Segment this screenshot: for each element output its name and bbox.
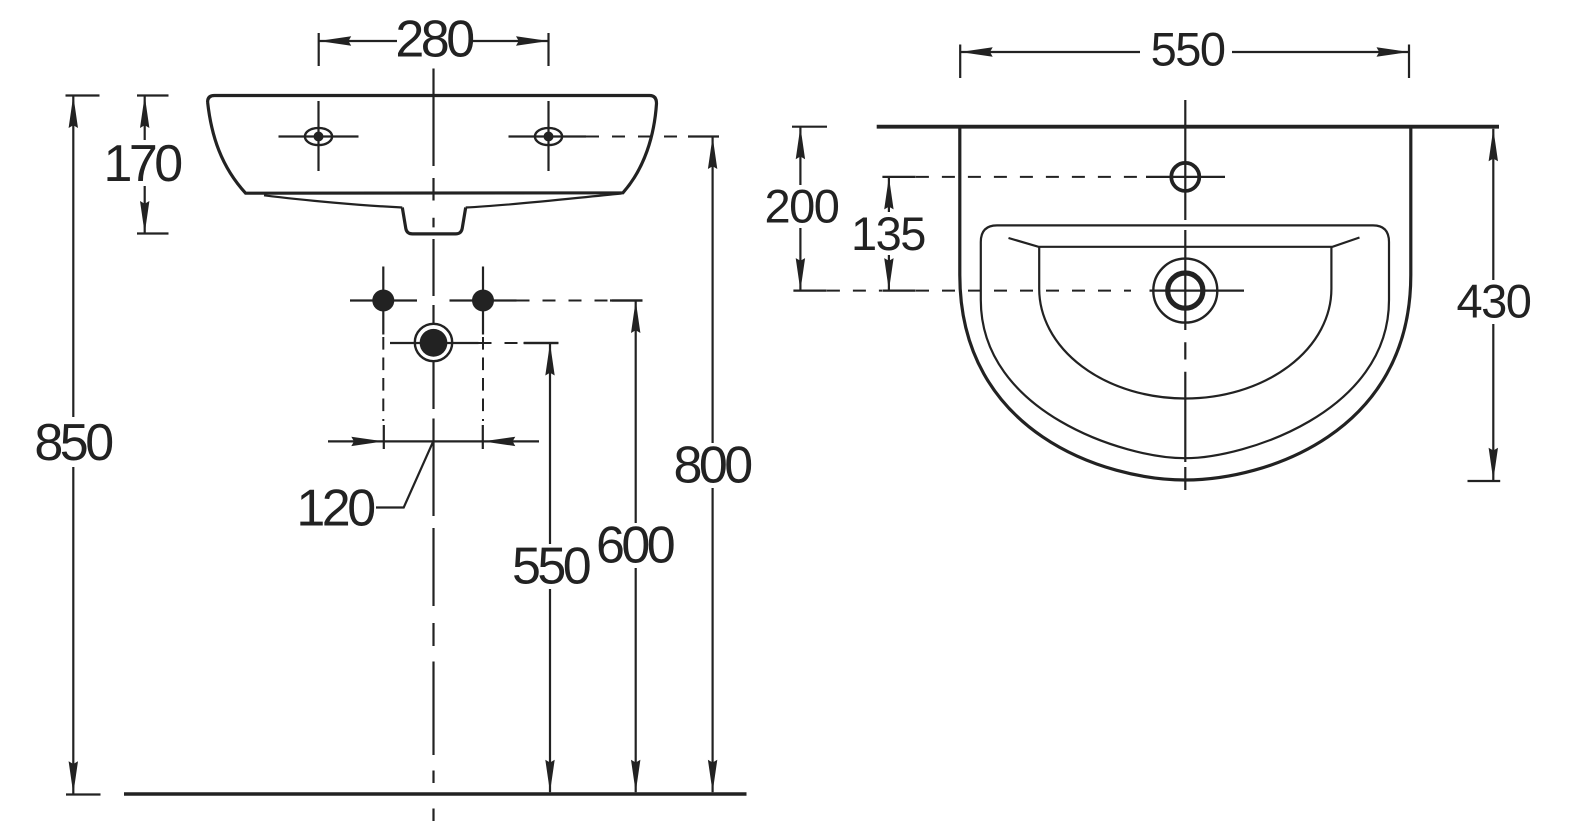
dimension 800 <box>673 137 751 793</box>
dimension 200 <box>765 127 839 291</box>
front view: basin underside line <box>264 194 622 208</box>
top view: inner bowl arc <box>1039 247 1331 399</box>
front view: left mounting hole <box>279 101 359 171</box>
front view: basin outline <box>208 96 657 194</box>
svg-text:800: 800 <box>673 437 751 495</box>
front view: right mounting hole <box>509 101 587 171</box>
dimension 430 <box>1457 129 1531 481</box>
svg-text:430: 430 <box>1457 275 1531 328</box>
dimension 170 <box>103 96 181 234</box>
svg-text:135: 135 <box>851 207 925 260</box>
dimension 550 (top view width) <box>960 23 1409 79</box>
svg-text:280: 280 <box>395 11 473 69</box>
svg-text:200: 200 <box>765 180 839 233</box>
top view: basin rim <box>981 225 1389 458</box>
dimension 135 <box>851 177 925 291</box>
front view: right fixing hole dot <box>450 267 517 335</box>
floor line <box>124 792 747 796</box>
front view: drain hole <box>390 324 479 361</box>
svg-text:600: 600 <box>596 517 674 575</box>
svg-text:550: 550 <box>1151 23 1225 76</box>
top view: back ledge line <box>1009 238 1360 247</box>
dimension 850 <box>34 96 112 795</box>
top view: wall line <box>877 125 1499 129</box>
top view: basin outer outline <box>960 128 1411 480</box>
dimension 600 <box>596 301 674 793</box>
dimension 120 <box>296 437 539 538</box>
svg-text:850: 850 <box>34 414 112 472</box>
dashed reference line from right mounting hole to 800 dimension <box>586 136 688 138</box>
dashed reference from fixing dots to 600 dimension <box>517 300 613 302</box>
dashed reference line at drain level <box>827 290 1131 292</box>
svg-text:550: 550 <box>512 538 590 596</box>
top view: drain <box>1150 259 1245 323</box>
svg-text:120: 120 <box>296 480 374 538</box>
dashed reference line at tap hole level <box>916 176 1146 178</box>
front view: drain outlet boss <box>402 208 465 234</box>
dimension 280 <box>319 11 549 69</box>
top view: vertical centerline <box>1184 100 1186 490</box>
dimension 550 (front view height) <box>512 343 590 792</box>
dashed projection lines below fixing dots <box>383 337 483 421</box>
top view: tap hole <box>1146 163 1225 191</box>
svg-text:170: 170 <box>103 135 181 193</box>
front view: vertical centerline <box>432 69 434 822</box>
front view: left fixing hole dot <box>350 267 417 335</box>
dashed reference from drain to 550 dimension <box>479 342 525 344</box>
